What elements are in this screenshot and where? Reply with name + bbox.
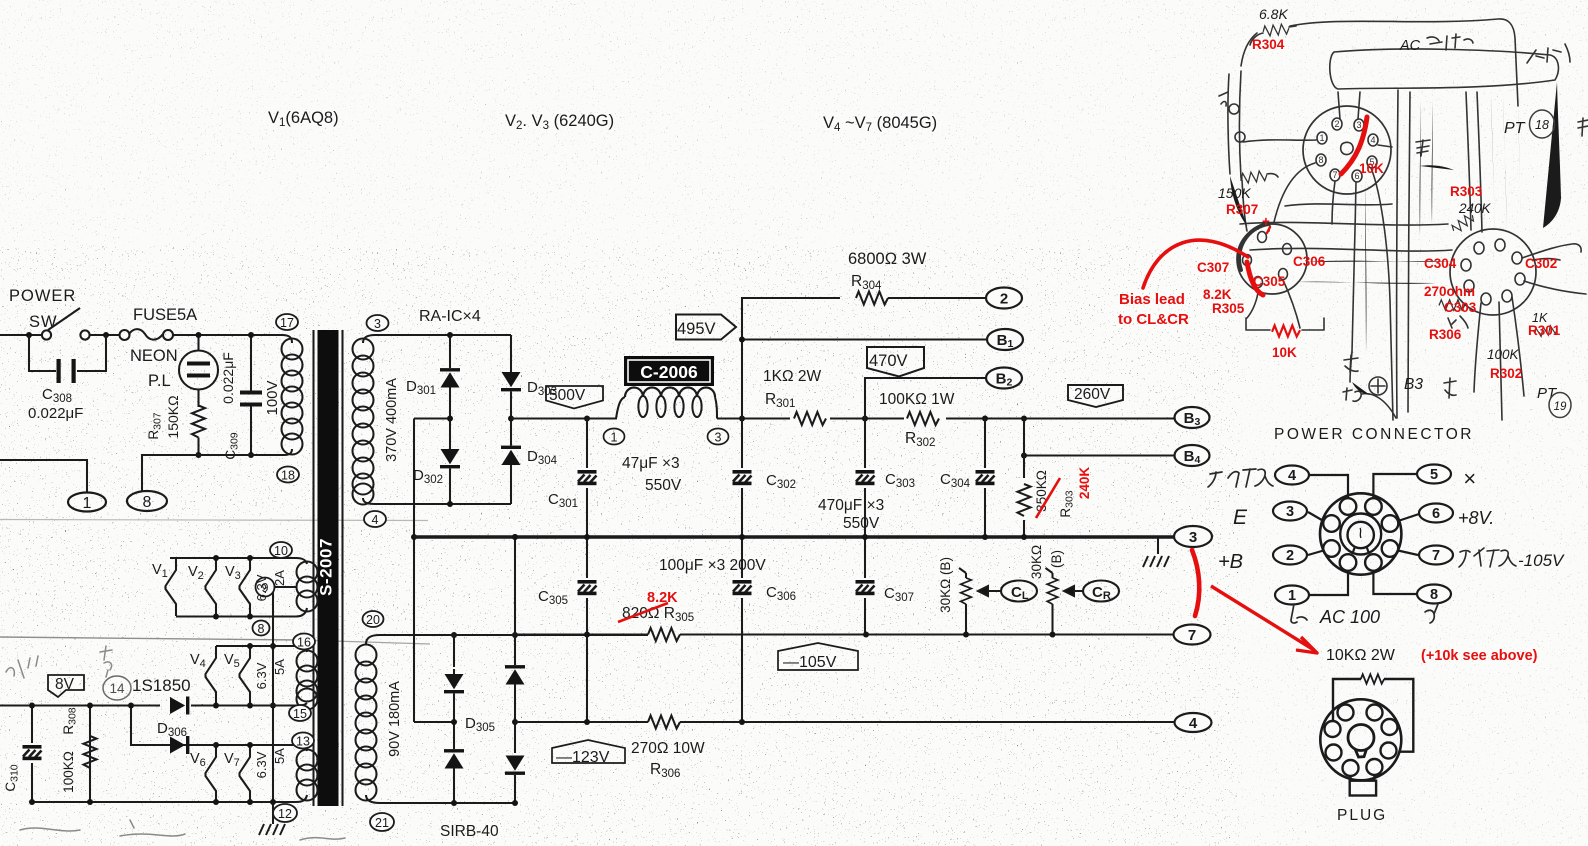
svg-text:4: 4 xyxy=(372,513,379,527)
heater tubes V4 V5 xyxy=(206,646,217,704)
flag 495V xyxy=(676,315,736,340)
svg-text:8: 8 xyxy=(1318,155,1323,165)
svg-text:10KΩ 2W: 10KΩ 2W xyxy=(1326,647,1396,664)
wire negative leg corner to bridge xyxy=(414,721,454,723)
main 500V rail xyxy=(380,292,1174,729)
svg-text:POWER: POWER xyxy=(9,287,76,305)
svg-text:500V: 500V xyxy=(549,387,586,404)
svg-text:495V: 495V xyxy=(677,320,716,338)
capacitor C307 xyxy=(852,578,878,598)
capacitor C304 xyxy=(984,419,986,538)
svg-text:C303: C303 xyxy=(1444,300,1477,315)
rectifier bridge SIRB-40 D305 xyxy=(380,634,515,636)
wire neon bottom line xyxy=(199,454,252,456)
svg-text:R303: R303 xyxy=(1450,184,1483,199)
svg-text:R305: R305 xyxy=(1212,301,1245,316)
capacitor C308 xyxy=(29,335,56,371)
svg-text:NEON: NEON xyxy=(130,347,178,365)
capacitor C309 xyxy=(250,335,252,392)
resistor R302 xyxy=(904,410,946,427)
svg-text:C306: C306 xyxy=(1293,254,1326,269)
svg-text:30KΩ (B): 30KΩ (B) xyxy=(938,557,953,613)
svg-text:10: 10 xyxy=(274,544,288,558)
svg-text:C304: C304 xyxy=(1424,256,1457,271)
diode D303 xyxy=(510,335,512,372)
svg-text:6800Ω 3W: 6800Ω 3W xyxy=(848,250,927,268)
svg-text:3: 3 xyxy=(1286,504,1294,520)
svg-text:17: 17 xyxy=(280,316,294,330)
svg-text:1S1850: 1S1850 xyxy=(132,676,191,695)
ground bus thick rail xyxy=(414,535,1174,538)
svg-text:—105V: —105V xyxy=(783,654,837,671)
core S-2007 laminations xyxy=(312,330,314,806)
svg-text:B3: B3 xyxy=(1404,376,1423,393)
handwritten L AC100 xyxy=(1291,604,1438,623)
svg-text:470μF ×3: 470μF ×3 xyxy=(818,497,884,514)
connector terminal ellipses xyxy=(1273,465,1453,605)
red annotations sketch xyxy=(1118,37,1561,381)
resistor R306 xyxy=(648,716,680,729)
svg-text:3: 3 xyxy=(715,431,722,445)
svg-text:100μF ×3 200V: 100μF ×3 200V xyxy=(659,557,766,574)
handwritten annotations connector xyxy=(1208,469,1273,487)
svg-text:90V 180mA: 90V 180mA xyxy=(387,681,403,757)
svg-text:6: 6 xyxy=(1432,506,1440,522)
terminal 8 xyxy=(127,491,167,511)
tube lineup labels xyxy=(268,109,937,134)
resistor 1K sketch xyxy=(1534,325,1558,338)
flag -123V xyxy=(552,740,625,763)
-105V rail xyxy=(380,634,515,636)
svg-text:550V: 550V xyxy=(843,515,880,532)
svg-text:16: 16 xyxy=(297,636,311,650)
choke C-2006 label box xyxy=(624,356,714,386)
capacitor C310 xyxy=(31,706,33,803)
wire to terminal 8 xyxy=(142,455,199,491)
svg-text:8.2K: 8.2K xyxy=(1203,287,1232,302)
resistor R307 xyxy=(192,406,205,438)
flag 470V xyxy=(867,347,924,377)
svg-text:1: 1 xyxy=(1319,133,1324,143)
wire R304 branch to terminal 2 xyxy=(742,298,840,419)
svg-text:100KΩ: 100KΩ xyxy=(61,751,76,793)
svg-text:3: 3 xyxy=(1189,529,1197,546)
svg-text:240K: 240K xyxy=(1458,201,1492,216)
svg-text:15: 15 xyxy=(293,707,307,721)
choke L1 C-2006 coil xyxy=(604,397,625,419)
diode D301 xyxy=(449,335,451,368)
handwritten bias -105V xyxy=(1459,548,1516,567)
potentiometer CL xyxy=(959,568,966,578)
diode 1S1850 xyxy=(170,697,189,715)
svg-text:(+10k see above): (+10k see above) xyxy=(1421,648,1538,664)
heater labels xyxy=(132,562,241,769)
svg-text:19: 19 xyxy=(1554,401,1567,413)
svg-text:5: 5 xyxy=(1430,467,1438,483)
svg-text:R304: R304 xyxy=(1252,37,1285,52)
svg-text:10K: 10K xyxy=(1272,345,1297,360)
svg-text:12: 12 xyxy=(278,807,292,821)
svg-text:270ohm: 270ohm xyxy=(1424,284,1475,299)
svg-text:4: 4 xyxy=(1370,135,1375,145)
svg-text:SW: SW xyxy=(29,313,58,331)
socket sketch right xyxy=(1450,229,1536,315)
resistor R305 xyxy=(648,628,680,641)
svg-text:270Ω 10W: 270Ω 10W xyxy=(631,740,705,757)
pencil scribbles bottom left xyxy=(6,646,345,840)
terminal 1 xyxy=(68,493,106,512)
diode D304 xyxy=(510,419,512,446)
fuse F1 xyxy=(120,330,130,340)
svg-text:6.3V: 6.3V xyxy=(254,662,269,689)
svg-text:7: 7 xyxy=(1332,170,1337,180)
svg-text:9: 9 xyxy=(262,581,269,595)
choke terminals 1 3 xyxy=(604,429,625,445)
resistor R308 xyxy=(89,706,91,803)
resistor 240K sketch xyxy=(1451,212,1476,234)
wire cable loop xyxy=(1330,49,1559,89)
node xyxy=(26,332,32,338)
svg-text:150K: 150K xyxy=(1218,185,1251,201)
svg-text:13: 13 xyxy=(296,735,310,749)
red arrow to 10K note xyxy=(1192,550,1199,616)
svg-text:2: 2 xyxy=(1286,548,1294,564)
capacitor C301 xyxy=(586,419,588,538)
svg-text:8: 8 xyxy=(1430,587,1438,603)
socket stub wires xyxy=(1338,92,1360,119)
svg-text:—123V: —123V xyxy=(556,749,610,766)
wire B1 branch xyxy=(742,338,987,340)
terminal ellipses right side xyxy=(986,288,1212,733)
socket sketch top xyxy=(1303,106,1391,194)
resistor 150K xyxy=(1241,170,1268,184)
svg-text:4: 4 xyxy=(1288,468,1296,484)
svg-text:6.3V: 6.3V xyxy=(254,751,269,778)
wire bridge bottom xyxy=(375,503,511,505)
svg-text:7: 7 xyxy=(1188,627,1196,644)
svg-text:6.8K: 6.8K xyxy=(1259,6,1288,22)
red thick strokes sketch xyxy=(1143,117,1367,337)
svg-text:8: 8 xyxy=(258,622,265,636)
svg-text:550V: 550V xyxy=(645,477,682,494)
secondary winding 90V 180mA xyxy=(366,635,380,644)
svg-text:1: 1 xyxy=(1288,588,1296,604)
svg-text:P.L: P.L xyxy=(148,372,171,390)
svg-text:S-2007: S-2007 xyxy=(317,538,336,596)
svg-text:FUSE5A: FUSE5A xyxy=(133,306,197,324)
svg-text:(B): (B) xyxy=(1049,550,1064,568)
svg-text:4: 4 xyxy=(1189,715,1198,732)
lug scribbles xyxy=(1344,355,1358,372)
transformer T1 S-2007 xyxy=(32,330,380,835)
-123V rail to terminal 4 xyxy=(515,721,648,723)
socket sketch mid xyxy=(1237,224,1307,294)
svg-text:47μF ×3: 47μF ×3 xyxy=(622,455,680,472)
resistor R301 xyxy=(790,410,830,427)
svg-text:RA-IC×4: RA-IC×4 xyxy=(419,308,481,325)
resistor R303 xyxy=(1023,419,1025,538)
svg-text:8: 8 xyxy=(143,494,152,511)
svg-text:C302: C302 xyxy=(1525,256,1557,271)
terminal circles transformer xyxy=(253,314,395,831)
svg-text:0.022μF: 0.022μF xyxy=(28,405,83,422)
svg-text:150KΩ: 150KΩ xyxy=(165,395,181,438)
capacitor C305 xyxy=(586,537,588,722)
wire bridge mid left to vertical xyxy=(414,417,450,419)
wire left column xyxy=(1228,74,1230,174)
svg-text:470V: 470V xyxy=(869,352,908,370)
resistor 6.8K R304 xyxy=(1263,23,1290,36)
capacitor C302 xyxy=(741,419,743,723)
svg-text:7: 7 xyxy=(1432,548,1440,564)
wire AC cord top squiggle xyxy=(1290,19,1518,106)
heater winding 6.3V 2A xyxy=(170,558,307,564)
svg-text:×: × xyxy=(1463,466,1476,491)
svg-text:1: 1 xyxy=(83,495,92,512)
wire to terminal 1 xyxy=(0,460,87,492)
wire B4 branch xyxy=(1024,454,1174,456)
svg-text:V4 ~V7 (8045G): V4 ~V7 (8045G) xyxy=(823,114,937,134)
flag 500V xyxy=(546,386,603,409)
diode D302 xyxy=(449,419,451,450)
svg-text:POWER CONNECTOR: POWER CONNECTOR xyxy=(1274,426,1474,443)
svg-text:8.2K: 8.2K xyxy=(647,590,678,606)
kanji black scribbles xyxy=(1416,140,1430,156)
svg-text:1KΩ 2W: 1KΩ 2W xyxy=(763,368,821,385)
svg-text:AC 100: AC 100 xyxy=(1319,607,1380,627)
primary winding 100V xyxy=(282,335,292,343)
wire centre verticals xyxy=(1397,90,1398,418)
svg-text:3: 3 xyxy=(374,317,381,331)
svg-text:R302: R302 xyxy=(1490,366,1522,381)
heater tubes V6 V7 xyxy=(206,745,217,803)
svg-text:R301: R301 xyxy=(1528,323,1561,338)
ground at rail xyxy=(1157,537,1159,554)
svg-text:21: 21 xyxy=(375,816,389,830)
svg-text:2A: 2A xyxy=(272,570,287,586)
diode D306 branch xyxy=(131,706,160,746)
POWER SW FUSE NEON labels xyxy=(9,287,197,422)
plug resistor circuit xyxy=(1320,674,1413,795)
svg-text:Bias lead: Bias lead xyxy=(1119,291,1185,308)
neon lamp P.L xyxy=(197,335,199,351)
svg-text:R307: R307 xyxy=(1226,202,1258,217)
svg-text:C-2006: C-2006 xyxy=(640,362,698,382)
secondary winding 370V 400mA xyxy=(363,335,375,343)
svg-text:PLUG: PLUG xyxy=(1337,807,1387,824)
wire bottom center to lug xyxy=(1350,352,1352,382)
plug body xyxy=(1320,699,1401,780)
heater winding 6.3V 5A xyxy=(219,646,307,652)
svg-text:+B: +B xyxy=(1218,551,1243,573)
svg-text:to CL&CR: to CL&CR xyxy=(1118,311,1189,328)
svg-text:30KΩ: 30KΩ xyxy=(1029,545,1044,579)
svg-text:18: 18 xyxy=(1535,118,1549,132)
heater tubes V1-V3 xyxy=(0,555,296,805)
scan crease lines xyxy=(0,520,428,521)
svg-text:AC: AC xyxy=(1399,38,1421,54)
svg-text:18: 18 xyxy=(281,469,295,483)
svg-text:100KΩ 1W: 100KΩ 1W xyxy=(879,391,955,408)
svg-text:-105V: -105V xyxy=(1518,551,1565,570)
svg-text:10K: 10K xyxy=(1359,161,1384,176)
svg-text:350KΩ: 350KΩ xyxy=(1034,470,1049,512)
svg-text:370V 400mA: 370V 400mA xyxy=(384,378,400,462)
pencil circled 14 xyxy=(103,676,131,700)
rectifier bridge RA-IC x4 xyxy=(375,332,525,806)
svg-text:20: 20 xyxy=(366,613,380,627)
svg-text:+8V.: +8V. xyxy=(1458,508,1494,528)
flag 260V xyxy=(1068,385,1123,407)
resistor 270ohm sketch xyxy=(1439,300,1465,310)
svg-text:2: 2 xyxy=(1000,291,1008,308)
svg-text:PT: PT xyxy=(1504,120,1526,137)
ground xyxy=(259,824,285,835)
svg-text:100K: 100K xyxy=(1487,347,1520,362)
center tap wire terminal 9 xyxy=(273,587,296,824)
flag 8V xyxy=(48,675,84,697)
octal socket xyxy=(1320,493,1401,574)
svg-text:C305: C305 xyxy=(1253,274,1286,289)
svg-text:100V: 100V xyxy=(264,380,281,415)
svg-text:0.022μF: 0.022μF xyxy=(220,352,236,404)
bracket with 10K below socket xyxy=(1246,318,1324,330)
svg-text:V1(6AQ8): V1(6AQ8) xyxy=(268,109,339,129)
svg-text:240K: 240K xyxy=(1077,467,1092,500)
wire vertical negative leg xyxy=(413,419,415,723)
power switch SW xyxy=(42,330,51,339)
svg-text:8V: 8V xyxy=(55,676,75,693)
svg-text:2: 2 xyxy=(1334,119,1339,129)
wire B2 branch 470V xyxy=(865,378,986,419)
svg-text:SIRB-40: SIRB-40 xyxy=(440,823,499,840)
capacitor C306 xyxy=(729,578,755,598)
wire AC top line xyxy=(0,334,41,336)
wire cross horizontals xyxy=(1240,222,1448,225)
svg-text:260V: 260V xyxy=(1074,386,1111,403)
svg-text:1: 1 xyxy=(611,431,618,445)
svg-text:5A: 5A xyxy=(272,659,287,675)
svg-text:3: 3 xyxy=(1356,120,1361,130)
svg-text:5A: 5A xyxy=(272,748,287,764)
capacitor value labels xyxy=(538,250,971,780)
connector pin leads xyxy=(1308,474,1419,595)
svg-text:E: E xyxy=(1233,506,1248,529)
capacitor C303 xyxy=(864,419,866,635)
svg-text:14: 14 xyxy=(109,681,125,696)
heater winding 6.3V 5A lower xyxy=(131,745,307,751)
svg-text:R306: R306 xyxy=(1429,327,1462,342)
svg-text:C307: C307 xyxy=(1197,260,1229,275)
flag -105V xyxy=(778,643,858,670)
potentiometer CR xyxy=(1046,568,1053,578)
